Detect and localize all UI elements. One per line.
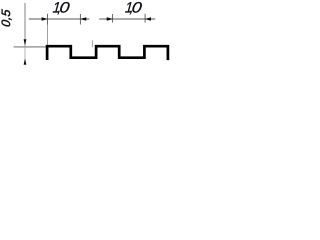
wire dimension line 2 (horizontal, y=19) — [99, 18, 155, 20]
arrowhead left-pointing at tick2 — [80, 17, 86, 20]
wire profile square wave (thick) — [47, 46, 168, 60]
arrowhead left-pointing at tick4 — [145, 17, 151, 20]
wire vertical dimension line 0.5 middle section — [24, 46, 26, 59]
arrowhead right-pointing at tick3 — [107, 17, 113, 20]
node extension tick 2 at x=80.4 — [79, 14, 81, 25]
wire extension line for 0.5 dimension (horizontal, y=46.9) — [14, 46, 48, 48]
arrowhead right-pointing at tick1 — [42, 17, 48, 20]
node label 1,0 (second) — [124, 0, 142, 17]
svg-text:0: 0 — [131, 0, 143, 16]
arrowhead down-pointing on 0.5 dimension — [24, 39, 27, 46]
wire vertical dimension line 0.5 upper tail — [24, 3, 26, 41]
node extension tick 3 at x=112.6 — [112, 14, 114, 23]
wire dimension line 1 (horizontal, y=19) — [29, 18, 90, 20]
wire extension continuation down to profile corner — [47, 25, 49, 46]
svg-text:0: 0 — [59, 0, 71, 16]
wire extension stub above tooth2 corner — [91, 40, 93, 47]
node extension tick 4 at x=145.1 — [144, 14, 146, 23]
node extension tick 1 at x=47.5 — [47, 14, 49, 25]
node label 1,0 (first) — [52, 0, 70, 17]
svg-text:0,5: 0,5 — [0, 9, 13, 28]
arrowhead up-pointing on 0.5 dimension — [24, 58, 27, 65]
